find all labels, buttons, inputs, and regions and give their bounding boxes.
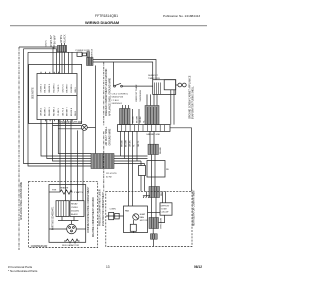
svg-text:BK-WH*: BK-WH*	[54, 35, 57, 44]
power cord plug P1	[77, 52, 90, 58]
svg-text:GROUND SCREW CABINET APPLIANCE: GROUND SCREW CABINET APPLIANCE	[188, 75, 191, 119]
svg-text:FREEZER COMPARTMENT LINER: FREEZER COMPARTMENT LINER	[99, 189, 102, 226]
wires bus down into CN1 top	[52, 47, 54, 74]
wires to small box	[140, 161, 142, 166]
svg-text:RD: RD	[166, 169, 170, 171]
svg-text:YL: YL	[134, 144, 136, 147]
CN1 top tick stubs	[40, 72, 42, 74]
wire top bus line 2	[24, 48, 58, 50]
svg-text:BLACK: BLACK	[71, 213, 78, 216]
wire evap box to defrost t-stat	[148, 212, 160, 214]
svg-text:GN-YL: GN-YL	[46, 39, 48, 46]
wires strip down to mid connector	[149, 131, 151, 144]
svg-text:BR-WH 7: BR-WH 7	[67, 83, 69, 93]
svg-text:RUN CAPACITOR: RUN CAPACITOR	[62, 244, 80, 247]
wires CN4 down to heater	[151, 198, 153, 218]
svg-text:5304507126: 5304507126	[112, 97, 124, 99]
small component box mid	[139, 166, 146, 176]
svg-text:5304491: 5304491	[71, 210, 80, 212]
labels below strip	[122, 139, 141, 147]
wires CN3 to CN4	[151, 155, 153, 187]
svg-text:CABINET GND: CABINET GND	[146, 133, 161, 136]
evaporator fan box	[124, 206, 148, 233]
svg-text:EVAPORATOR COMPARTMENT: EVAPORATOR COMPARTMENT	[102, 191, 105, 226]
compressor motor M1	[49, 221, 86, 234]
main connector block CN1	[37, 74, 77, 120]
svg-text:MACHINE COMPARTMENT GROUND: MACHINE COMPARTMENT GROUND	[92, 197, 95, 237]
svg-text:AIR DUCT SHELL: AIR DUCT SHELL	[105, 126, 108, 145]
svg-text:REFRIGERATOR COMPARTMENT: REFRIGERATOR COMPARTMENT	[193, 189, 196, 226]
svg-text:BK-WH: BK-WH	[126, 140, 128, 147]
junction connector CN2 hatched	[91, 154, 114, 169]
wires small box into freezer compartment	[140, 176, 142, 192]
terminal circles	[176, 83, 187, 87]
svg-text:FAN: FAN	[140, 216, 145, 219]
svg-text:DEFROST TIMER: DEFROST TIMER	[136, 84, 138, 101]
connector pair on fan wire	[106, 212, 124, 219]
svg-text:FFTR1814QB1: FFTR1814QB1	[95, 14, 118, 18]
CN1 pin labels row 2	[40, 106, 77, 116]
svg-text:GN-YL 6: GN-YL 6	[62, 107, 64, 116]
svg-text:240356501: 240356501	[112, 103, 123, 105]
ground symbol right	[143, 191, 150, 198]
svg-text:COMPRESSOR MACHINE COMPARTMENT: COMPRESSOR MACHINE COMPARTMENT	[87, 186, 90, 233]
svg-text:OR-BK: OR-BK	[140, 116, 142, 123]
compressor inner box	[49, 185, 86, 243]
svg-text:RD-WH 4: RD-WH 4	[54, 106, 56, 116]
wire lamp drop 2	[82, 130, 84, 200]
mid connector CN3 hatched	[148, 144, 158, 154]
wire lamp right lead	[87, 126, 95, 128]
wires below strip	[121, 131, 138, 206]
svg-text:COMPRESSOR: COMPRESSOR	[31, 246, 48, 248]
wire left line B	[24, 49, 92, 164]
svg-text:* Non-Illustrated Parts: * Non-Illustrated Parts	[8, 269, 38, 273]
wire to control board upper	[93, 60, 156, 80]
svg-text:HTR 450W: HTR 450W	[161, 218, 163, 228]
defrost thermostat box	[160, 191, 172, 215]
lamp L1	[81, 124, 87, 130]
svg-text:GN-YL 6: GN-YL 6	[62, 84, 64, 93]
svg-text:WH-BK: WH-BK	[133, 115, 135, 123]
svg-text:BK-WH 2: BK-WH 2	[45, 106, 47, 116]
wires CN1 to lower bus	[41, 120, 91, 157]
svg-text:OR-BK 1: OR-BK 1	[40, 83, 42, 92]
svg-text:BK-WH 2: BK-WH 2	[45, 83, 47, 93]
svg-text:T-STAT: T-STAT	[161, 207, 168, 210]
wires CN1 into compressor box	[59, 120, 61, 193]
svg-text:BU-BK 8: BU-BK 8	[71, 107, 73, 116]
crankcase heater	[49, 187, 83, 195]
cold control switch S1	[114, 83, 123, 87]
relay box over wires	[147, 161, 165, 178]
svg-text:3 WATTS: 3 WATTS	[74, 191, 83, 194]
svg-text:YL-BK 5: YL-BK 5	[58, 84, 60, 93]
fan lower component	[130, 220, 136, 233]
svg-text:GN-YL: GN-YL	[138, 140, 140, 147]
CN1 divider	[37, 95, 77, 97]
connector block B hatched (on strip)	[145, 106, 159, 125]
svg-text:HEATER: HEATER	[60, 187, 69, 190]
wires J1 down to main connector	[59, 52, 61, 74]
svg-text:COLD CONTROL: COLD CONTROL	[112, 94, 129, 96]
svg-text:BU-BK 8: BU-BK 8	[71, 84, 73, 93]
svg-text:HTR: HTR	[52, 189, 57, 191]
svg-text:BK-WH: BK-WH	[136, 116, 138, 123]
wires board to connector block B	[146, 94, 148, 107]
freezer boundary upper dash-dot	[103, 62, 105, 126]
svg-text:APPLIANCE SHELL GROUND WIRE: APPLIANCE SHELL GROUND WIRE	[20, 181, 23, 220]
wires under labels to strip	[132, 109, 134, 124]
wire left line C	[28, 52, 91, 166]
wires sub-box down to strip wire	[170, 90, 172, 125]
svg-text:Publication No. 241884413: Publication No. 241884413	[163, 14, 200, 18]
wire top bus line 3 (continues to power cord)	[28, 51, 77, 53]
svg-text:13: 13	[106, 265, 110, 269]
svg-text:DEFROST: DEFROST	[148, 75, 159, 77]
wire strip to right boundary	[170, 128, 192, 192]
cold control wire to board	[122, 85, 152, 87]
svg-text:YL-BK 5: YL-BK 5	[58, 107, 60, 116]
svg-text:115 VOLTS: 115 VOLTS	[106, 173, 117, 175]
svg-text:WIRING DIAGRAM: WIRING DIAGRAM	[85, 20, 119, 25]
svg-text:5304518034: 5304518034	[140, 89, 142, 101]
run capacitor	[62, 239, 80, 247]
wire stub from label 1	[50, 45, 52, 47]
svg-text:CONN: CONN	[110, 209, 117, 211]
evaporator fan motor M2	[133, 214, 139, 220]
svg-text:OR-BK 1: OR-BK 1	[40, 107, 42, 116]
svg-text:WH-BK: WH-BK	[160, 146, 162, 154]
machine compartment dashed box	[29, 181, 98, 247]
svg-text:WH-BK: WH-BK	[122, 139, 124, 147]
overload relay box hatched	[56, 201, 69, 217]
console outline box around CN1	[29, 65, 82, 124]
wires control text to connector block A	[122, 105, 124, 109]
control board box U1	[153, 80, 176, 95]
bottom plug hatched	[150, 234, 157, 239]
svg-text:RELAY: RELAY	[71, 202, 78, 205]
wire stub from label 2	[53, 45, 55, 49]
header rule	[10, 25, 207, 27]
svg-text:SERVICE: SERVICE	[91, 48, 93, 58]
wire stub group 2	[61, 43, 63, 45]
wire branch to cold control	[113, 62, 115, 86]
svg-text:WH 9: WH 9	[75, 110, 77, 116]
svg-text:DEFROST: DEFROST	[161, 205, 170, 207]
freezer boundary lower dash-dot	[103, 131, 105, 191]
wires relay to compressor	[61, 217, 63, 221]
freezer dashed box	[106, 191, 192, 246]
overload box with labels	[70, 201, 84, 217]
svg-text:BR-WH 7: BR-WH 7	[67, 106, 69, 116]
svg-text:EVAPORATOR TUBING SHELL: EVAPORATOR TUBING SHELL	[191, 86, 194, 119]
terminal strip TB1	[118, 125, 171, 132]
svg-text:WH 9: WH 9	[75, 86, 77, 92]
wire bottom plug down	[153, 239, 155, 246]
svg-text:GROUND WIRE: GROUND WIRE	[110, 128, 112, 145]
svg-text:FREEZER COMPARTMENT LINER GROU: FREEZER COMPARTMENT LINER GROUND	[105, 68, 108, 116]
CN1 pin labels row 1	[40, 83, 77, 93]
svg-text:L140-30F: L140-30F	[161, 211, 170, 213]
svg-text:MOTOR: MOTOR	[140, 220, 148, 222]
connector block A hatched (on strip)	[120, 109, 131, 125]
bus lines right of CN2	[114, 155, 148, 157]
svg-text:RD-WH 4: RD-WH 4	[54, 83, 56, 93]
lower connector CN4 hatched	[149, 187, 160, 198]
labels between blocks	[133, 115, 146, 123]
svg-text:WH-BK 3: WH-BK 3	[49, 83, 51, 93]
svg-text:OR-BK: OR-BK	[130, 140, 132, 147]
svg-text:LT. BLU: LT. BLU	[112, 100, 120, 102]
svg-text:06/12: 06/12	[194, 265, 202, 269]
wire top bus line 1	[19, 46, 57, 48]
svg-text:60 HZ: 60 HZ	[106, 177, 112, 179]
connector block J2 hatched below plug	[87, 58, 94, 66]
wire to control board lower	[93, 62, 153, 80]
wire J2 to CN2 junction	[95, 66, 97, 154]
svg-text:PART NO 5304509471: PART NO 5304509471	[52, 206, 55, 230]
svg-text:FAN: FAN	[125, 210, 130, 213]
CN1 bottom tick stubs	[45, 120, 47, 122]
appliance shell boundary left	[18, 47, 20, 250]
defrost heater hatched box	[149, 218, 159, 229]
svg-text:EVAP: EVAP	[140, 213, 146, 216]
interior light wires	[53, 125, 82, 127]
wire lamp drop 1	[77, 130, 79, 200]
svg-text:BLACK: BLACK	[64, 34, 67, 43]
svg-text:SEE NOTE: SEE NOTE	[33, 87, 35, 99]
svg-text:WH-BK 3: WH-BK 3	[49, 106, 51, 116]
wire heater down	[152, 229, 154, 234]
svg-text:WH-BK*: WH-BK*	[50, 35, 53, 44]
fan labels	[125, 210, 148, 223]
wire t-stat to heater	[159, 215, 165, 222]
svg-text:OVRLD: OVRLD	[71, 207, 79, 209]
connector J1 top hatched	[57, 45, 66, 52]
